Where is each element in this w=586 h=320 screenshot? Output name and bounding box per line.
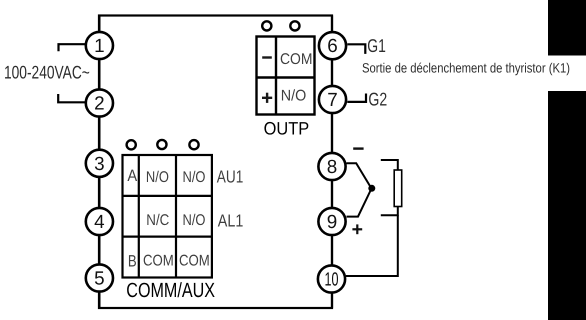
svg-text:N/O: N/O [183, 169, 206, 186]
terminal 8 [318, 153, 345, 180]
polarity minus thermocouple [353, 147, 363, 149]
terminal 9 [318, 208, 345, 235]
wire terminal 8 to junction [347, 163, 372, 188]
svg-text:7: 7 [327, 90, 338, 111]
svg-text:COM: COM [179, 253, 210, 270]
svg-text:N/O: N/O [281, 88, 307, 105]
svg-text:1: 1 [94, 36, 105, 57]
svg-text:AL1: AL1 [218, 211, 244, 231]
wire supply hook to terminal 1 [59, 44, 86, 51]
terminal 6 [319, 32, 346, 59]
svg-text:COM: COM [143, 253, 174, 270]
svg-text:10: 10 [325, 270, 339, 291]
svg-text:3: 3 [94, 154, 105, 175]
svg-text:6: 6 [327, 36, 338, 57]
controller body outline [99, 16, 332, 309]
wire RTD bottom lead and stub [381, 207, 398, 216]
svg-text:2: 2 [94, 94, 105, 115]
svg-text:N/C: N/C [146, 212, 169, 229]
terminal 3 [86, 150, 113, 177]
OUTP screw hole 1 [262, 21, 271, 30]
wire right edge through terminals 6-10 [331, 16, 333, 309]
svg-text:N/O: N/O [146, 169, 169, 186]
terminal 2 [86, 89, 113, 116]
wire RTD top lead [381, 160, 398, 170]
terminal 10 [318, 265, 345, 292]
svg-text:B: B [128, 253, 137, 271]
black sidebar bottom [548, 91, 586, 320]
svg-text:4: 4 [94, 212, 105, 233]
terminal 5 [86, 264, 113, 291]
OUTP screw hole 2 [290, 21, 299, 30]
wire G1 lead from terminal 6 [347, 44, 365, 54]
resistor RTD sensor [394, 170, 402, 207]
wire G2 lead from terminal 7 [347, 94, 366, 102]
COMM/AUX screw hole 1 [127, 140, 136, 149]
svg-text:AU1: AU1 [217, 166, 244, 186]
svg-text:OUTP: OUTP [264, 119, 310, 139]
terminal 1 [86, 32, 113, 59]
COMM/AUX terminal block K2 [123, 155, 212, 278]
wire RTD to terminal 10 [346, 215, 398, 276]
terminal 4 [86, 208, 113, 235]
svg-text:G1: G1 [367, 35, 386, 56]
polarity plus thermocouple [352, 224, 362, 234]
black sidebar top [548, 0, 586, 56]
svg-text:A: A [127, 167, 137, 185]
COMM/AUX screw hole 2 [157, 140, 166, 149]
polarity plus OUTP [262, 93, 272, 103]
svg-text:8: 8 [327, 157, 338, 178]
COMM/AUX screw hole 3 [189, 140, 198, 149]
terminal 7 [319, 86, 346, 113]
svg-text:COMM/AUX: COMM/AUX [126, 279, 215, 302]
svg-text:9: 9 [327, 212, 338, 233]
svg-text:G2: G2 [368, 89, 387, 110]
junction dot thermocouple [368, 185, 375, 192]
svg-text:Sortie de déclenchement de thy: Sortie de déclenchement de thyristor (K1… [362, 60, 570, 75]
svg-text:100-240VAC~: 100-240VAC~ [4, 61, 90, 82]
OUTP terminal block K1 [257, 37, 315, 115]
wire supply hook to terminal 2 [58, 94, 85, 102]
svg-text:N/O: N/O [183, 212, 206, 229]
polarity minus OUTP [262, 56, 272, 58]
svg-text:COM: COM [280, 51, 313, 68]
svg-text:5: 5 [94, 269, 105, 290]
wire left edge through terminals 1-5 [98, 16, 100, 309]
wire terminal 9 to junction [347, 189, 372, 217]
